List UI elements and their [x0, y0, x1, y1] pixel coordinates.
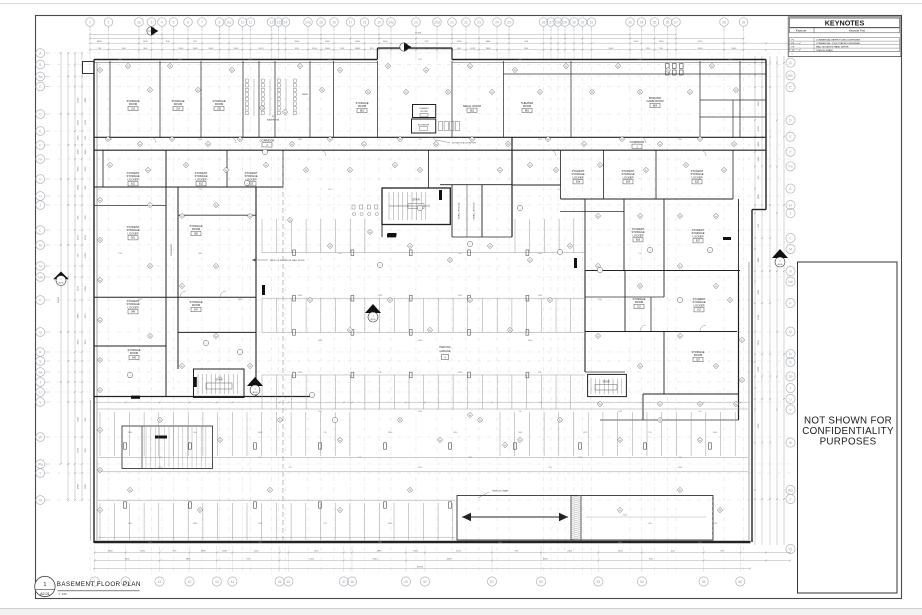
svg-text:LOCKER: LOCKER [692, 234, 703, 238]
svg-text:2100: 2100 [456, 550, 462, 552]
section marker top-center [400, 43, 412, 51]
svg-text:Fa: Fa [147, 170, 149, 172]
svg-text:Fa: Fa [339, 70, 341, 72]
svg-text:54: 54 [640, 580, 644, 584]
svg-text:2400: 2400 [325, 48, 331, 50]
svg-text:TRENCH DRAIN: TRENCH DRAIN [816, 49, 833, 52]
svg-text:8a: 8a [227, 20, 231, 24]
svg-text:1800: 1800 [698, 299, 702, 301]
svg-text:19: 19 [377, 20, 381, 24]
svg-text:2400: 2400 [85, 483, 87, 489]
svg-text:P4: P4 [733, 144, 735, 146]
svg-text:41: 41 [158, 580, 162, 584]
svg-text:4880: 4880 [78, 313, 80, 319]
svg-text:Fa: Fa [504, 445, 506, 447]
svg-text:4880: 4880 [298, 139, 302, 141]
svg-text:1800: 1800 [486, 48, 492, 50]
svg-text:2100: 2100 [312, 48, 318, 50]
svg-text:Q: Q [39, 330, 42, 334]
svg-text:Fa: Fa [469, 66, 471, 68]
east rooms second row wall [585, 270, 740, 272]
svg-text:P4: P4 [169, 66, 171, 68]
svg-text:P4: P4 [171, 139, 173, 141]
svg-text:4880: 4880 [758, 257, 760, 263]
svg-text:32: 32 [590, 20, 594, 24]
svg-text:PARKING: PARKING [439, 345, 450, 349]
svg-text:1200: 1200 [138, 299, 142, 301]
svg-text:LOCKER: LOCKER [572, 175, 583, 179]
svg-text:Fa: Fa [409, 246, 411, 248]
svg-text:Wa: Wa [788, 488, 793, 492]
thermo control room [413, 105, 436, 118]
svg-text:TRENCH DRAIN: TRENCH DRAIN [492, 490, 509, 493]
svg-text:2100: 2100 [598, 299, 602, 301]
student storage band east rooms [560, 150, 562, 199]
svg-text:P4: P4 [667, 70, 669, 72]
svg-text:1800: 1800 [140, 550, 146, 552]
svg-text:915: 915 [258, 457, 261, 459]
svg-text:P4: P4 [219, 440, 221, 442]
svg-text:WALL MOUNTED HAND DRYER: WALL MOUNTED HAND DRYER [816, 45, 849, 48]
svg-text:P4: P4 [449, 260, 451, 262]
svg-text:Fa: Fa [394, 165, 396, 167]
toilet fixtures south of washrooms [352, 205, 355, 209]
svg-text:NOT SHOWN FOR: NOT SHOWN FOR [804, 416, 892, 427]
svg-text:1 : 150: 1 : 150 [59, 592, 67, 596]
svg-text:52: 52 [539, 580, 543, 584]
svg-text:3000: 3000 [78, 166, 80, 172]
svg-text:CORRIDOR: CORRIDOR [171, 244, 173, 256]
svg-text:1500: 1500 [198, 139, 202, 141]
section marker center garage [365, 304, 381, 322]
svg-text:1: 1 [335, 420, 336, 422]
svg-text:Fa: Fa [367, 92, 369, 94]
svg-text:COMMERCIAL TOILET PAPER DISPEN: COMMERCIAL TOILET PAPER DISPENSER [816, 42, 860, 45]
bottom extension lines [94, 546, 96, 572]
svg-text:45: 45 [278, 580, 282, 584]
svg-text:Fa: Fa [471, 139, 473, 141]
svg-text:Na: Na [38, 275, 42, 279]
corridor south wall [94, 149, 766, 151]
svg-text:19a: 19a [388, 20, 394, 24]
svg-text:51: 51 [490, 580, 494, 584]
svg-text:P4: P4 [555, 170, 557, 172]
exterior wall right jog [752, 209, 766, 211]
svg-text:1: 1 [470, 244, 471, 246]
svg-text:Fa: Fa [723, 170, 725, 172]
svg-text:ELEVATOR ALIGN AFTER: ELEVATOR ALIGN AFTER [452, 142, 476, 145]
door swing arcs [150, 137, 156, 143]
svg-text:B13: B13 [249, 184, 254, 186]
svg-text:50: 50 [423, 580, 427, 584]
svg-text:Fa: Fa [679, 266, 681, 268]
stair treads center [388, 192, 390, 220]
svg-text:2400: 2400 [193, 48, 199, 50]
small circles markers [244, 180, 249, 185]
svg-text:750: 750 [98, 189, 101, 191]
svg-text:ROOM: ROOM [129, 102, 138, 106]
svg-text:2100: 2100 [338, 253, 342, 255]
svg-text:44: 44 [231, 580, 235, 584]
svg-text:P4: P4 [409, 490, 411, 492]
svg-text:F: F [789, 150, 791, 154]
svg-text:ELEVATOR: ELEVATOR [418, 124, 430, 127]
svg-text:Na: Na [788, 280, 792, 284]
svg-text:3000: 3000 [758, 289, 760, 295]
svg-text:1800: 1800 [85, 285, 87, 291]
svg-text:1800: 1800 [418, 411, 422, 413]
svg-text:43: 43 [215, 580, 219, 584]
svg-text:17: 17 [349, 20, 353, 24]
svg-text:M: M [789, 247, 792, 251]
svg-text:1500: 1500 [728, 59, 732, 61]
svg-text:1800: 1800 [198, 253, 202, 255]
east block walls [584, 271, 586, 373]
svg-text:A5.06: A5.06 [778, 263, 783, 266]
top band partition walls [109, 61, 111, 137]
svg-text:1800: 1800 [468, 457, 472, 459]
svg-text:Fa: Fa [469, 415, 471, 417]
svg-text:THERMO: THERMO [419, 108, 429, 110]
svg-text:1800: 1800 [498, 542, 502, 544]
svg-text:Fa: Fa [249, 216, 251, 218]
exterior wall bottom [94, 541, 751, 543]
svg-text:600: 600 [558, 189, 561, 191]
svg-text:36: 36 [666, 20, 670, 24]
bottom grid bubbles [90, 577, 99, 586]
svg-text:3000: 3000 [78, 119, 80, 125]
svg-text:Fa: Fa [689, 92, 691, 94]
svg-text:4880: 4880 [378, 542, 382, 544]
svg-text:P4: P4 [199, 510, 201, 512]
svg-text:Ba: Ba [38, 75, 42, 79]
svg-text:B02: B02 [470, 110, 475, 112]
svg-text:24: 24 [495, 20, 499, 24]
svg-text:P4: P4 [305, 170, 307, 172]
svg-text:P4: P4 [507, 144, 509, 146]
svg-text:3000: 3000 [698, 48, 704, 50]
svg-text:1200: 1200 [457, 41, 463, 43]
svg-text:L: L [790, 236, 792, 240]
svg-text:B04: B04 [653, 106, 658, 108]
svg-text:L: L [39, 228, 41, 232]
svg-text:P4: P4 [321, 90, 323, 92]
exterior wall right upper [765, 60, 767, 210]
column grid lines [89, 27, 91, 577]
svg-text:Fa: Fa [139, 144, 141, 146]
svg-text:Keynote: Keynote [796, 29, 807, 33]
west stair door bar [194, 377, 197, 387]
exterior wall step top-left [83, 62, 95, 74]
screenshot top hairline [0, 3, 922, 5]
svg-text:Fa: Fa [741, 340, 743, 342]
svg-text:Fa: Fa [299, 66, 301, 68]
svg-text:Fa: Fa [349, 170, 351, 172]
garage columns [293, 250, 296, 256]
svg-text:2400: 2400 [118, 59, 122, 61]
svg-text:1200: 1200 [758, 125, 760, 131]
svg-text:750: 750 [198, 189, 201, 191]
svg-text:PURPOSES: PURPOSES [820, 437, 877, 448]
svg-text:P4: P4 [99, 70, 101, 72]
svg-text:Fa: Fa [207, 144, 209, 146]
svg-text:2400: 2400 [85, 97, 87, 103]
svg-text:KEYNOTES: KEYNOTES [825, 19, 865, 28]
section marker top-left [147, 27, 159, 35]
svg-text:LOCKER: LOCKER [632, 233, 643, 237]
svg-text:Fa: Fa [735, 404, 737, 406]
svg-text:4880: 4880 [186, 558, 192, 560]
svg-text:GARAGE: GARAGE [439, 349, 450, 353]
svg-text:915: 915 [638, 253, 641, 255]
svg-text:1500: 1500 [758, 314, 760, 320]
svg-text:Fa: Fa [109, 165, 111, 167]
svg-text:Sa: Sa [788, 375, 792, 379]
svg-text:CORRIDOR: CORRIDOR [630, 140, 645, 144]
southwest room [122, 426, 213, 469]
svg-text:Fa: Fa [99, 280, 101, 282]
svg-text:4880: 4880 [78, 483, 80, 489]
svg-text:Fa: Fa [149, 205, 151, 207]
svg-text:Ya: Ya [38, 498, 42, 502]
svg-text:Sa: Sa [38, 370, 42, 374]
svg-text:A5.03: A5.03 [253, 391, 258, 394]
east block lower rooms [663, 332, 665, 395]
svg-text:18: 18 [363, 20, 367, 24]
west block corridor walls [165, 150, 167, 396]
keynote diamonds along corridor and walls [97, 67, 102, 72]
svg-text:W: W [272, 116, 274, 118]
svg-text:26: 26 [542, 20, 546, 24]
svg-text:1: 1 [247, 183, 248, 185]
svg-text:1: 1 [420, 208, 421, 210]
svg-text:2a: 2a [137, 20, 141, 24]
svg-text:13: 13 [277, 20, 281, 24]
svg-text:56: 56 [738, 580, 742, 584]
svg-text:Fa: Fa [499, 170, 501, 172]
exterior wall top [94, 59, 377, 61]
svg-text:1: 1 [680, 300, 681, 302]
svg-text:J: J [39, 203, 41, 207]
svg-text:1500: 1500 [678, 457, 682, 459]
svg-text:3000: 3000 [543, 558, 549, 560]
svg-text:1: 1 [710, 250, 711, 252]
svg-text:Fa: Fa [639, 92, 641, 94]
svg-text:2100: 2100 [118, 253, 122, 255]
svg-text:1800: 1800 [294, 41, 300, 43]
svg-text:3: 3 [151, 20, 153, 24]
svg-text:P4: P4 [715, 366, 717, 368]
svg-text:4880: 4880 [486, 41, 492, 43]
svg-text:35: 35 [653, 20, 657, 24]
svg-text:MECH. ROOM: MECH. ROOM [463, 104, 482, 108]
student storage band bottom wall west [94, 186, 283, 188]
svg-text:A5.03: A5.03 [371, 318, 376, 321]
svg-text:38: 38 [722, 20, 726, 24]
svg-text:P4: P4 [419, 170, 421, 172]
wall below block to garage [381, 225, 383, 238]
svg-text:Fa: Fa [107, 139, 109, 141]
svg-text:55: 55 [702, 580, 706, 584]
svg-text:Fa: Fa [99, 200, 101, 202]
corridor north wall [94, 136, 766, 138]
svg-text:1: 1 [130, 375, 131, 377]
svg-text:P4: P4 [99, 360, 101, 362]
svg-text:Fa: Fa [329, 139, 331, 141]
svg-text:Fa: Fa [583, 144, 585, 146]
section marker right [772, 249, 788, 267]
svg-text:46: 46 [287, 580, 291, 584]
svg-text:7: 7 [201, 20, 203, 24]
svg-text:39: 39 [742, 20, 746, 24]
svg-text:49: 49 [404, 580, 408, 584]
svg-text:3000: 3000 [78, 339, 80, 345]
svg-text:20: 20 [414, 20, 418, 24]
svg-text:1800: 1800 [78, 184, 80, 190]
svg-text:Fa: Fa [239, 139, 241, 141]
svg-text:31: 31 [581, 20, 585, 24]
svg-text:2100: 2100 [248, 59, 252, 61]
row grid lines [47, 52, 795, 54]
exterior wall left [93, 60, 95, 544]
svg-text:P4: P4 [679, 216, 681, 218]
trench drain hatch column [571, 496, 581, 541]
svg-text:P4: P4 [99, 470, 101, 472]
ramp arrow [462, 516, 568, 518]
svg-text:Fa: Fa [363, 144, 365, 146]
svg-text:P4: P4 [291, 144, 293, 146]
svg-text:ROOM: ROOM [174, 102, 183, 106]
svg-text:Fa: Fa [639, 366, 641, 368]
svg-text:Fa: Fa [149, 90, 151, 92]
svg-text:P4: P4 [514, 70, 516, 72]
svg-text:23: 23 [477, 20, 481, 24]
svg-text:Fa: Fa [469, 300, 471, 302]
svg-text:2: 2 [108, 20, 110, 24]
svg-text:Fa: Fa [405, 92, 407, 94]
svg-text:Fa: Fa [699, 139, 701, 141]
svg-text:1200: 1200 [318, 411, 322, 413]
svg-text:LOCKER: LOCKER [195, 177, 206, 181]
svg-text:1800: 1800 [758, 100, 760, 106]
svg-text:1: 1 [240, 352, 241, 354]
svg-text:33: 33 [628, 20, 632, 24]
washroom fixtures west block [246, 79, 249, 82]
svg-text:14a: 14a [305, 20, 311, 24]
svg-text:Fa: Fa [679, 490, 681, 492]
svg-text:STAIR: STAIR [602, 381, 609, 384]
svg-text:2400: 2400 [208, 48, 214, 50]
svg-text:42: 42 [188, 580, 192, 584]
svg-text:1070: 1070 [85, 313, 87, 319]
svg-text:M: M [39, 243, 42, 247]
svg-text:Fa: Fa [425, 70, 427, 72]
svg-text:600: 600 [698, 411, 701, 413]
svg-text:Fa: Fa [215, 205, 217, 207]
svg-text:1200: 1200 [758, 156, 760, 162]
svg-text:Fa: Fa [679, 336, 681, 338]
svg-text:2400: 2400 [355, 41, 361, 43]
svg-text:900: 900 [518, 59, 521, 61]
svg-text:A2.01: A2.01 [40, 592, 50, 596]
svg-text:P4: P4 [185, 165, 187, 167]
svg-text:SMALL VEHICLE: SMALL VEHICLE [458, 202, 461, 220]
svg-text:P4: P4 [149, 336, 151, 338]
view title bubble [35, 576, 55, 596]
svg-text:Fa: Fa [639, 216, 641, 218]
svg-text:1200: 1200 [85, 119, 87, 125]
svg-text:P4: P4 [261, 108, 263, 110]
svg-text:FACE OF EXTERIOR WALL MOVE: FACE OF EXTERIOR WALL MOVE [270, 259, 305, 262]
svg-text:37: 37 [674, 20, 678, 24]
svg-text:1: 1 [520, 208, 521, 210]
svg-text:1070: 1070 [85, 339, 87, 345]
svg-text:B12: B12 [199, 184, 204, 186]
svg-text:Fa: Fa [479, 420, 481, 422]
svg-text:1200: 1200 [78, 135, 80, 141]
svg-text:Fa: Fa [741, 380, 743, 382]
svg-text:1070: 1070 [85, 166, 87, 172]
svg-text:1: 1 [43, 582, 46, 588]
svg-text:LOCKER: LOCKER [127, 177, 138, 181]
svg-text:25: 25 [507, 20, 511, 24]
svg-text:5: 5 [173, 20, 175, 24]
svg-text:4880: 4880 [618, 542, 622, 544]
svg-text:1200: 1200 [418, 59, 422, 61]
exterior wall right lower [751, 210, 753, 543]
svg-text:1: 1 [89, 20, 91, 24]
svg-text:P4: P4 [719, 510, 721, 512]
svg-text:Fa: Fa [659, 404, 661, 406]
svg-text:6: 6 [187, 20, 189, 24]
svg-text:1500: 1500 [618, 411, 622, 413]
svg-text:14: 14 [284, 20, 288, 24]
svg-text:Fa: Fa [159, 420, 161, 422]
svg-text:Fa: Fa [599, 404, 601, 406]
svg-text:ROOM: ROOM [694, 353, 703, 357]
svg-text:4: 4 [161, 20, 163, 24]
svg-text:2400: 2400 [567, 550, 573, 552]
svg-text:Fa: Fa [715, 216, 717, 218]
section marker west stair [247, 377, 263, 395]
svg-text:P4: P4 [639, 286, 641, 288]
svg-text:Fa: Fa [529, 260, 531, 262]
svg-text:600: 600 [328, 59, 331, 61]
svg-text:ROOM: ROOM [215, 102, 224, 106]
svg-text:30: 30 [572, 20, 576, 24]
svg-text:Fa: Fa [599, 165, 601, 167]
svg-text:34: 34 [640, 20, 644, 24]
svg-text:Fa: Fa [309, 300, 311, 302]
svg-text:Fa: Fa [225, 170, 227, 172]
svg-text:A5.06: A5.06 [59, 282, 64, 285]
svg-text:1500: 1500 [178, 59, 182, 61]
svg-text:Fa: Fa [181, 286, 183, 288]
central stair-elevator block [382, 188, 450, 225]
svg-text:P4: P4 [591, 92, 593, 94]
southwest room ramp hatch [145, 427, 147, 468]
svg-text:1500: 1500 [78, 97, 80, 103]
svg-text:Fa: Fa [491, 92, 493, 94]
theater/game room inner wall [504, 73, 767, 75]
svg-text:Fa: Fa [339, 440, 341, 442]
svg-text:Fa: Fa [539, 92, 541, 94]
svg-text:Fa: Fa [619, 440, 621, 442]
right dimension strings [754, 56, 756, 545]
svg-text:P4: P4 [659, 420, 661, 422]
svg-text:Fa: Fa [529, 165, 531, 167]
top wall pilasters [666, 64, 670, 69]
